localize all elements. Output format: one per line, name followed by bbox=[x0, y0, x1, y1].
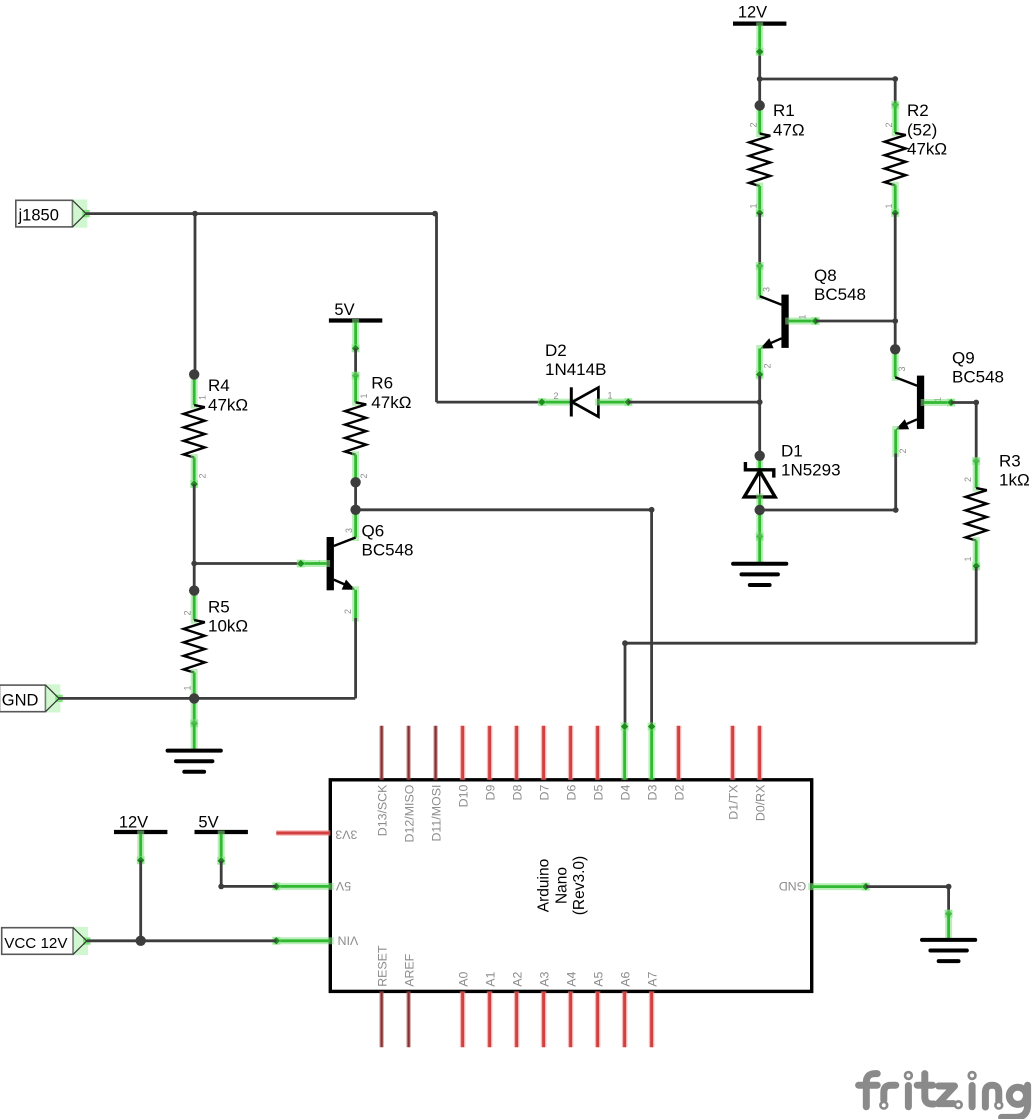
svg-text:1: 1 bbox=[198, 395, 208, 400]
svg-text:A6: A6 bbox=[619, 972, 633, 987]
wire Q8 base to R2/Q9 net bbox=[816, 320, 896, 323]
junction D2 output on emitter wire bbox=[757, 399, 763, 405]
Arduino pin A1 stub bbox=[487, 991, 493, 1047]
svg-text:R1: R1 bbox=[773, 101, 795, 120]
node D1 pin2 junction bbox=[755, 451, 765, 461]
svg-text:BC548: BC548 bbox=[952, 368, 1004, 387]
diamond endpoint D2 pin2 bbox=[538, 398, 546, 406]
wire Arduino GND right bbox=[866, 885, 949, 888]
svg-text:47Ω: 47Ω bbox=[773, 120, 805, 139]
Arduino pin D10 stub bbox=[460, 726, 466, 780]
connector GND bbox=[0, 684, 63, 712]
diamond endpoint 5V pin bbox=[352, 344, 360, 352]
diode D1 anode pin bbox=[756, 497, 763, 510]
bend 5V wire corner bbox=[218, 884, 224, 890]
node Q6 collector junction bbox=[350, 505, 360, 515]
wire R2 pin1 down to Q9 collector node bbox=[894, 213, 897, 349]
Arduino pin D1/TX stub bbox=[730, 726, 736, 780]
node Q9 collector junction bbox=[890, 344, 900, 354]
Arduino pin D2 stub bbox=[676, 726, 682, 780]
diamond endpoint R3 pin2 bbox=[972, 457, 980, 465]
svg-text:D13/SCK: D13/SCK bbox=[376, 784, 390, 836]
diamond endpoint D2 pin1 bbox=[624, 398, 632, 406]
svg-text:j1850: j1850 bbox=[18, 207, 59, 225]
svg-text:47kΩ: 47kΩ bbox=[371, 393, 411, 412]
svg-text:3V3: 3V3 bbox=[335, 828, 357, 842]
junction j1850/R4 bbox=[192, 211, 198, 217]
Arduino pin A5 stub bbox=[595, 991, 601, 1047]
junction bend at R2 corner bbox=[892, 76, 898, 82]
node R5 pin2 junction bbox=[189, 585, 199, 595]
svg-text:R5: R5 bbox=[208, 597, 230, 616]
Arduino pin D12/MISO stub bbox=[406, 726, 411, 780]
svg-text:5V: 5V bbox=[335, 879, 351, 893]
wire R3 down bbox=[975, 567, 978, 643]
svg-text:A1: A1 bbox=[484, 972, 498, 987]
resistor R6 bbox=[352, 376, 359, 403]
Arduino pin D3 stub bbox=[648, 726, 654, 780]
wire down to D2 net bbox=[435, 214, 438, 403]
svg-text:5V: 5V bbox=[334, 301, 354, 319]
svg-text:R3: R3 bbox=[999, 451, 1021, 470]
transistor Q8 body bbox=[760, 295, 789, 349]
Arduino pin D6 stub bbox=[568, 726, 574, 780]
transistor Q9 emitter pin bbox=[892, 430, 899, 454]
node R5 pin1 / GND junction bbox=[189, 693, 199, 703]
svg-text:2: 2 bbox=[884, 123, 894, 128]
Arduino center label bbox=[536, 856, 589, 915]
diamond endpoint R3 pin1 bbox=[972, 562, 980, 570]
diamond endpoint D1 gnd wire bbox=[756, 533, 764, 541]
wire Q6 emitter down bbox=[354, 618, 357, 698]
Arduino pin A0 stub bbox=[460, 991, 466, 1047]
diamond endpoint D4 stub top bbox=[621, 723, 629, 731]
ground symbol pin (R5) bbox=[191, 723, 198, 748]
svg-text:2: 2 bbox=[749, 123, 759, 128]
diamond endpoint R2 pin1 bbox=[891, 209, 899, 217]
svg-text:10kΩ: 10kΩ bbox=[208, 617, 248, 636]
svg-text:D12/MISO: D12/MISO bbox=[403, 784, 417, 842]
svg-text:2: 2 bbox=[343, 609, 353, 614]
svg-text:2: 2 bbox=[554, 391, 559, 401]
wire j1850 node down to R4 bbox=[194, 214, 197, 375]
Arduino pin D13/SCK stub bbox=[379, 726, 384, 780]
Arduino pin A7 stub bbox=[649, 991, 655, 1047]
svg-text:Nano: Nano bbox=[553, 867, 570, 904]
wire Q8 emitter down to D1 bbox=[758, 376, 761, 456]
svg-text:47kΩ: 47kΩ bbox=[208, 395, 248, 414]
svg-text:1N414B: 1N414B bbox=[545, 360, 606, 379]
svg-text:D0/RX: D0/RX bbox=[754, 785, 768, 822]
diamond endpoint ground pin (R5) bbox=[190, 719, 198, 727]
bend GND wire corner bbox=[946, 884, 952, 890]
wire Q6 collector to Arduino D3 bbox=[356, 508, 652, 511]
junction bend 12V rail bbox=[757, 76, 763, 82]
svg-text:D1: D1 bbox=[781, 441, 803, 460]
wire R4 to R5 bbox=[193, 484, 196, 590]
diamond endpoint VIN pin tip bbox=[272, 937, 280, 945]
resistor R1 bbox=[756, 107, 763, 134]
transistor Q9 body bbox=[895, 376, 924, 430]
svg-text:3: 3 bbox=[344, 528, 354, 533]
svg-text:D1/TX: D1/TX bbox=[727, 785, 741, 820]
wire Q9 emitter down bbox=[894, 453, 897, 510]
svg-text:Q8: Q8 bbox=[814, 266, 837, 285]
transistor Q9 collector pin bbox=[892, 351, 899, 377]
resistor R2 bbox=[892, 106, 899, 133]
diode D1 zener body bbox=[744, 462, 775, 497]
diamond endpoint 5V pin tip bbox=[272, 882, 280, 890]
Arduino pin D5 stub bbox=[595, 726, 601, 780]
resistor R3 bbox=[973, 462, 980, 489]
svg-text:2: 2 bbox=[183, 611, 193, 616]
wire to Q6 base bbox=[194, 562, 301, 565]
svg-text:D4: D4 bbox=[619, 784, 633, 800]
power symbol 12V (top) bbox=[733, 3, 786, 23]
diamond endpoint 5V pin (bottom) bbox=[217, 857, 225, 865]
svg-text:A5: A5 bbox=[592, 972, 606, 987]
node D1 pin1 junction bbox=[755, 505, 765, 515]
svg-text:47kΩ: 47kΩ bbox=[907, 140, 947, 159]
svg-text:D5: D5 bbox=[592, 784, 606, 800]
Arduino pin 3V3 stub bbox=[276, 830, 330, 836]
svg-text:R2: R2 bbox=[907, 101, 929, 120]
bend Q9 emitter wire corner bbox=[893, 507, 899, 513]
node R1 pin2 junction bbox=[755, 100, 765, 110]
wire 5V pin segment bbox=[352, 323, 359, 349]
svg-text:Arduino: Arduino bbox=[536, 859, 553, 912]
svg-text:BC548: BC548 bbox=[814, 285, 866, 304]
wire 12V down to node R1.2 bbox=[758, 52, 761, 106]
wire R6 to Q6 collector bbox=[354, 482, 357, 510]
wire Q9 base to R3 bbox=[951, 401, 976, 404]
wire D1 to ground bbox=[756, 510, 763, 537]
svg-text:2: 2 bbox=[963, 477, 973, 482]
svg-text:D3: D3 bbox=[646, 784, 660, 800]
bend Q9 base wire corner bbox=[973, 400, 979, 406]
svg-text:VCC 12V: VCC 12V bbox=[4, 935, 68, 952]
ground symbol pin (D1) bbox=[756, 537, 763, 562]
svg-text:12V: 12V bbox=[119, 813, 148, 831]
wire 5V to Arduino 5V pin bbox=[221, 885, 276, 888]
svg-text:A3: A3 bbox=[538, 972, 552, 987]
Arduino pin VIN stub bbox=[276, 937, 330, 944]
svg-text:D2: D2 bbox=[673, 784, 687, 800]
svg-text:2: 2 bbox=[763, 364, 773, 369]
svg-text:GND: GND bbox=[2, 691, 39, 709]
wire 12V down to VIN net bbox=[139, 860, 142, 941]
diamond endpoint R4 pin2 bbox=[190, 480, 198, 488]
ground symbol (Arduino) bbox=[922, 940, 975, 961]
wire VCC to VIN bbox=[87, 939, 276, 942]
power symbol 5V (top) bbox=[329, 301, 382, 321]
wire branch to R2 bbox=[760, 78, 896, 81]
Arduino pin D9 stub bbox=[487, 726, 493, 780]
diamond endpoint D3 stub top bbox=[648, 723, 656, 731]
diamond endpoint Q8 base bbox=[812, 317, 820, 325]
power symbol 5V (bottom) bbox=[195, 813, 248, 832]
svg-text:D6: D6 bbox=[565, 784, 579, 800]
svg-text:2: 2 bbox=[898, 449, 908, 454]
wire Q9 emitter to D1 bottom node bbox=[760, 509, 896, 512]
wire j1850 net to D2 bbox=[437, 401, 542, 404]
diamond endpoint ground pin (Arduino) bbox=[945, 910, 953, 918]
svg-text:A0: A0 bbox=[457, 972, 471, 987]
transistor Q9 base pin bbox=[924, 399, 951, 406]
Arduino pin AREF stub bbox=[406, 991, 411, 1047]
junction Q8 base / R2 wire bbox=[892, 318, 898, 324]
Arduino pin D7 stub bbox=[541, 726, 547, 780]
svg-text:VIN: VIN bbox=[338, 933, 359, 947]
ground symbol (R5) bbox=[168, 751, 221, 772]
transistor Q8 collector pin bbox=[756, 268, 763, 297]
svg-text:1: 1 bbox=[884, 204, 894, 209]
fritzing watermark logo bbox=[859, 1074, 1028, 1118]
node R2 pin2 endpoint bbox=[891, 101, 899, 109]
bend corner to D4 bbox=[622, 640, 628, 646]
svg-text:Q6: Q6 bbox=[362, 522, 385, 541]
Arduino pin D8 stub bbox=[514, 726, 520, 780]
transistor Q6 body bbox=[327, 537, 356, 590]
Arduino pin A2 stub bbox=[514, 991, 520, 1047]
wire 12V to R1 (pin segment) bbox=[756, 26, 763, 52]
bend corner to D3 bbox=[649, 507, 655, 513]
svg-text:1: 1 bbox=[749, 204, 759, 209]
diamond endpoint Q8 emitter bbox=[756, 371, 764, 379]
wire R3 to D4 bbox=[625, 642, 976, 645]
svg-text:A4: A4 bbox=[565, 972, 579, 987]
svg-text:RESET: RESET bbox=[376, 945, 390, 987]
diamond endpoint Q6 base bbox=[297, 560, 305, 568]
svg-text:3: 3 bbox=[762, 287, 772, 292]
wire GND connector to Q6 emitter bbox=[58, 697, 355, 700]
svg-text:2: 2 bbox=[198, 474, 208, 479]
transistor Q8 emitter pin bbox=[756, 349, 763, 376]
wire j1850 horizontal bbox=[86, 212, 437, 215]
svg-text:1: 1 bbox=[359, 394, 369, 399]
svg-text:Q9: Q9 bbox=[952, 348, 975, 367]
wire down to R3 pin2 bbox=[975, 403, 978, 462]
resistor R4 bbox=[191, 379, 198, 406]
Arduino pin GND stub bbox=[812, 883, 866, 890]
wire 5V to R6 bbox=[354, 348, 357, 375]
svg-text:2: 2 bbox=[359, 474, 369, 479]
diode D2 pin 2 bbox=[542, 399, 572, 406]
svg-text:GND: GND bbox=[779, 879, 807, 893]
wire GND node to ground symbol bbox=[191, 698, 198, 723]
Arduino pin D0/RX stub bbox=[757, 726, 763, 780]
wire 5V down bbox=[220, 861, 223, 887]
wire 12V pin segment bbox=[137, 834, 144, 860]
diamond endpoint 12V pin (bottom) bbox=[137, 856, 145, 864]
Arduino pin D4 stub bbox=[621, 726, 627, 780]
Arduino pin A3 stub bbox=[541, 991, 547, 1047]
svg-text:D2: D2 bbox=[545, 341, 567, 360]
svg-text:5V: 5V bbox=[198, 813, 218, 831]
wire GND down bbox=[947, 887, 950, 914]
diamond endpoint Arduino GND wire bbox=[862, 883, 870, 891]
svg-text:(52): (52) bbox=[907, 120, 937, 139]
wire down to Arduino D3 bbox=[650, 510, 653, 725]
svg-text:AREF: AREF bbox=[403, 953, 417, 986]
IC Arduino Nano (Rev3.0) bbox=[330, 780, 811, 992]
power symbol 12V (bottom) bbox=[114, 813, 167, 832]
Arduino pin A6 stub bbox=[622, 991, 628, 1047]
svg-text:1: 1 bbox=[963, 557, 973, 562]
bend j1850 wire corner bbox=[432, 211, 438, 217]
svg-text:D10: D10 bbox=[457, 784, 471, 807]
junction base wire tap bbox=[191, 561, 197, 567]
wire 5V pin segment bbox=[218, 834, 225, 861]
wire R1 to Q8 collector bbox=[758, 213, 761, 266]
ground symbol pin (Arduino) bbox=[945, 913, 952, 938]
diamond endpoint Q8 collector net bbox=[756, 262, 764, 270]
svg-text:(Rev3.0): (Rev3.0) bbox=[571, 856, 588, 915]
Arduino pin D11/MOSI stub bbox=[433, 726, 438, 780]
Arduino pin RESET stub bbox=[379, 991, 384, 1047]
transistor Q6 emitter pin bbox=[352, 590, 359, 618]
junction VCC/12V node bbox=[136, 936, 146, 946]
transistor Q8 base pin bbox=[789, 318, 816, 325]
svg-text:1kΩ: 1kΩ bbox=[999, 471, 1030, 490]
Arduino pin A4 stub bbox=[568, 991, 574, 1047]
svg-text:A7: A7 bbox=[646, 972, 660, 987]
svg-text:D11/MOSI: D11/MOSI bbox=[430, 785, 444, 842]
svg-text:R6: R6 bbox=[371, 374, 393, 393]
diode D2 pin 1 bbox=[598, 399, 628, 406]
svg-text:R4: R4 bbox=[208, 376, 230, 395]
svg-text:12V: 12V bbox=[738, 3, 767, 21]
resistor R5 bbox=[191, 594, 198, 621]
diode D2 body bbox=[571, 387, 598, 416]
connector VCC 12V bbox=[2, 927, 91, 955]
transistor Q6 collector pin bbox=[352, 511, 359, 538]
diamond endpoint R6 pin1 wire bbox=[352, 372, 360, 380]
svg-text:1N5293: 1N5293 bbox=[781, 461, 841, 480]
connector j1850 bbox=[16, 200, 90, 228]
svg-text:A2: A2 bbox=[511, 972, 525, 987]
diamond endpoint 12V pin bbox=[756, 48, 764, 56]
wire down to Arduino D4 bbox=[624, 643, 627, 725]
svg-text:1: 1 bbox=[183, 686, 193, 691]
svg-text:D8: D8 bbox=[511, 784, 525, 800]
wire down to R2 pin 2 bbox=[894, 79, 897, 105]
svg-text:3: 3 bbox=[897, 367, 907, 372]
svg-text:D9: D9 bbox=[484, 784, 498, 800]
diamond endpoint Q9 base bbox=[947, 399, 955, 407]
svg-text:BC548: BC548 bbox=[362, 541, 414, 560]
diode D1 cathode pin bbox=[756, 456, 763, 470]
diamond endpoint R1 pin1 bbox=[756, 209, 764, 217]
node R4 pin1 junction bbox=[189, 369, 199, 379]
node R6 pin2 junction bbox=[350, 477, 360, 487]
wire D2 to Q8 emitter net bbox=[628, 401, 759, 404]
svg-text:D7: D7 bbox=[538, 784, 552, 800]
transistor Q6 base pin bbox=[301, 560, 327, 567]
Arduino pin 5V stub bbox=[276, 883, 330, 890]
ground symbol (D1) bbox=[733, 564, 786, 585]
